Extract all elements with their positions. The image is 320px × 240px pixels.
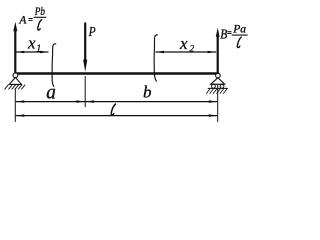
ground line of right support [208,87,227,89]
left support hatching [5,85,25,89]
reaction arrow A [13,22,17,73]
label x2 [179,34,195,53]
fraction bar of A label [34,16,46,18]
roller wheels [212,84,216,88]
dimension line l [16,115,217,117]
svg-text:Pa: Pa [232,22,246,36]
section wavy line 1 [52,44,56,87]
label l [111,104,115,115]
left support triangle [9,77,21,84]
left extension line below support [14,89,16,122]
svg-text:Pb: Pb [34,6,45,18]
x1 dimension line [16,51,48,53]
denominator l of A label [38,20,42,30]
dimension line b [86,101,217,103]
right support hatching [207,89,228,94]
svg-text:1: 1 [36,43,41,54]
right extension line below support [217,85,219,122]
equals sign of B label [228,32,232,34]
pin circle of left support [13,73,18,78]
beam [16,72,219,75]
x2 dimension line [156,51,216,53]
svg-text:A: A [18,15,27,27]
right support triangle [211,78,225,85]
svg-text:a: a [46,82,56,104]
svg-text:B: B [220,26,227,41]
svg-text:x: x [179,34,188,53]
roller circle of right support [216,73,221,78]
reaction arrow B [216,28,220,73]
svg-text:b: b [143,83,152,102]
extension line under P [84,77,86,107]
section wavy line 2 [154,35,157,81]
svg-text:P: P [88,25,96,40]
dimension line a [16,101,84,103]
label x1 [27,34,41,55]
svg-text:2: 2 [190,43,195,53]
fraction bar of B label [232,34,247,36]
label A = Pb/l [18,6,45,27]
denominator l of B label [237,37,241,47]
load P arrow [83,23,87,72]
equals sign of A label [29,19,33,21]
svg-text:x: x [27,34,36,53]
label B = Pa/l [220,22,246,42]
